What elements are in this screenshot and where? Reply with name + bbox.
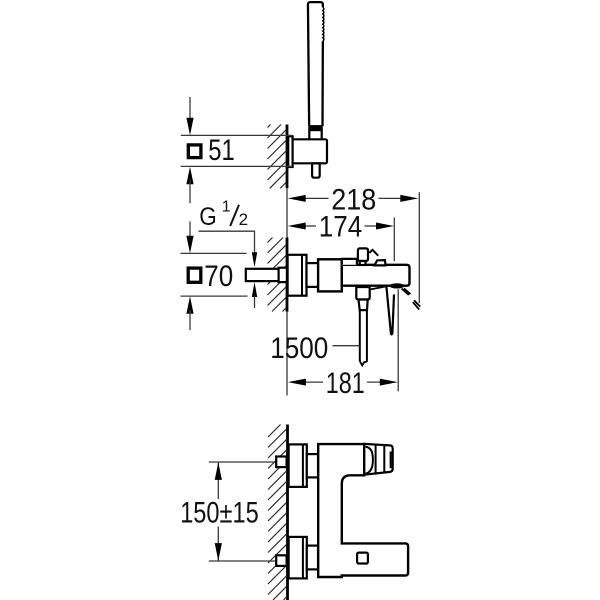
handle divider 1 bbox=[375, 445, 377, 474]
hose cut tip bbox=[360, 361, 367, 365]
aerator (black) under body right end bbox=[390, 283, 405, 288]
dimension sq51: extension lines bbox=[181, 134, 292, 136]
handle divider 2 bbox=[383, 445, 385, 474]
dim 218 right extension line bbox=[418, 192, 420, 303]
svg-text:181: 181 bbox=[326, 367, 365, 400]
wall (middle) bbox=[268, 238, 288, 312]
hose bbox=[359, 310, 361, 361]
wall (bottom) bbox=[268, 425, 288, 600]
outlet taper bbox=[359, 300, 368, 311]
spout inner square bbox=[357, 553, 368, 564]
raised step on body top, left of diverter knob bbox=[342, 259, 357, 265]
shower outlet block below body bbox=[356, 287, 369, 300]
upper escutcheon bbox=[289, 444, 307, 487]
dim 181: line, arrows, text bbox=[302, 381, 324, 383]
lever pivot wedge on body bbox=[375, 260, 386, 265]
svg-text:2: 2 bbox=[239, 210, 248, 229]
mixer body with spout (outline) bbox=[318, 444, 408, 577]
svg-text:70: 70 bbox=[204, 260, 233, 293]
handle D-arc bbox=[366, 447, 373, 474]
hand shower neck bbox=[309, 130, 321, 140]
svg-text:G: G bbox=[199, 203, 217, 231]
bracket body bbox=[293, 139, 327, 163]
spray dashes from outlet bbox=[402, 288, 421, 309]
dim 174 right extension line bbox=[393, 218, 395, 262]
leader line for G 1/2 bbox=[199, 231, 255, 253]
upper connector bbox=[307, 454, 318, 477]
svg-text:51: 51 bbox=[208, 134, 235, 167]
wall (top, behind hand-shower bracket) bbox=[268, 125, 288, 189]
square symbol for 51 bbox=[188, 145, 201, 158]
lower escutcheon bbox=[289, 537, 307, 579]
hand shower stick bbox=[308, 2, 324, 126]
svg-text:1: 1 bbox=[222, 198, 231, 215]
dim 174: line, arrows, text bbox=[301, 225, 316, 227]
dim 150+-15 extension lines bbox=[209, 461, 287, 463]
dim 150+-15 dim line + arrows bbox=[217, 463, 219, 500]
lower supply square bbox=[276, 555, 286, 566]
svg-text:174: 174 bbox=[319, 211, 363, 244]
main body (horizontal) bbox=[342, 265, 410, 286]
dimension sq51: dim line + arrows bbox=[189, 97, 191, 123]
handle (front view): outline bbox=[364, 444, 392, 475]
escutcheon (side view) bbox=[288, 255, 307, 296]
line from outlet to lever base (under body) bbox=[370, 286, 386, 289]
handle end bracket bbox=[391, 452, 393, 467]
hand shower dark band bbox=[308, 125, 323, 130]
diverter stem bbox=[360, 261, 366, 265]
lever (hanging down) bbox=[386, 287, 394, 335]
dim 218: line, arrows, text bbox=[301, 197, 329, 199]
cartridge housing bbox=[318, 259, 342, 291]
diverter knob bbox=[358, 248, 368, 261]
svg-text:1500: 1500 bbox=[270, 332, 328, 365]
bracket lower stub bbox=[312, 163, 320, 177]
bracket wall flange bbox=[288, 136, 292, 167]
pipe nut at wall bbox=[279, 268, 287, 282]
wire: wall-plane extension line down to 181 dim bbox=[286, 312, 288, 396]
wire: extension line from top wall down to middle wall (wall plane) bbox=[286, 188, 288, 237]
dimension sq70: extension lines bbox=[181, 252, 247, 254]
dim 181 right extension line bbox=[397, 289, 399, 391]
lever tip mark (bent line) bbox=[369, 250, 378, 256]
lower connector bbox=[307, 546, 318, 570]
svg-text:150±15: 150±15 bbox=[180, 497, 259, 530]
upper supply square bbox=[276, 457, 286, 468]
square symbol for 70 bbox=[188, 268, 201, 282]
connector between escutcheon and cartridge bbox=[307, 263, 319, 287]
supply pipe bbox=[246, 269, 279, 281]
label G 1/2 bbox=[199, 198, 248, 230]
dimension sq70: dim line + arrows bbox=[189, 222, 191, 242]
